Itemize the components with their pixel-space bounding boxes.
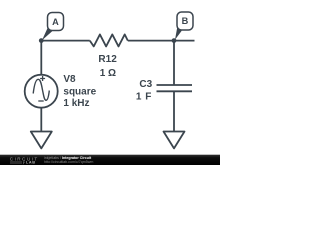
svg-text:R12: R12	[98, 54, 117, 65]
node A label	[42, 13, 64, 41]
svg-text:1 Ω: 1 Ω	[100, 68, 116, 79]
junction dot right node B	[172, 38, 177, 43]
watermark bar	[0, 155, 220, 165]
sine wave symbol	[33, 79, 49, 100]
wire resistor to node B stub	[128, 40, 195, 42]
resistor R12	[90, 34, 128, 46]
svg-text:C3: C3	[139, 79, 152, 90]
svg-text:B: B	[182, 16, 189, 26]
ground right	[164, 132, 185, 149]
svg-text:LAB: LAB	[26, 161, 36, 165]
svg-text:1 kHz: 1 kHz	[63, 98, 89, 109]
svg-text:square: square	[63, 86, 96, 97]
node B label	[175, 12, 193, 40]
minus sign	[38, 100, 43, 102]
wire capacitor to ground right	[173, 91, 175, 131]
svg-text:V8: V8	[63, 74, 76, 85]
ground left	[31, 132, 52, 149]
svg-text:1 F: 1 F	[136, 91, 152, 102]
junction dot left node A	[39, 38, 44, 43]
capacitor C3 plates	[157, 85, 193, 91]
svg-text:A: A	[52, 17, 59, 27]
plus sign	[40, 76, 45, 81]
voltage source V8 circle	[25, 75, 58, 108]
wire top horizontal A to resistor	[41, 40, 90, 42]
wire source to ground left	[40, 108, 42, 132]
svg-text:htto://circuitlab.com/c/7qm5wm: htto://circuitlab.com/c/7qm5wm	[44, 160, 93, 164]
wire right vertical to capacitor	[173, 41, 175, 85]
wire left vertical top	[40, 41, 42, 75]
